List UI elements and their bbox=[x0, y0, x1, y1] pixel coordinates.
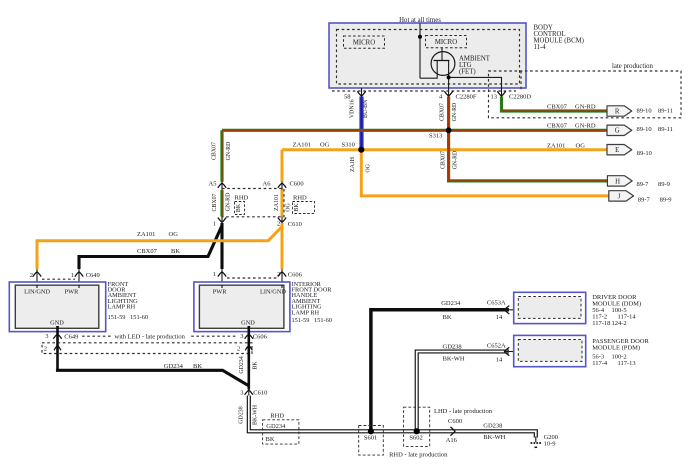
svg-text:89-10: 89-10 bbox=[637, 126, 652, 133]
svg-text:GN-RD: GN-RD bbox=[225, 192, 231, 211]
svg-text:BK: BK bbox=[253, 361, 259, 370]
svg-text:S601: S601 bbox=[364, 435, 377, 442]
svg-text:C606: C606 bbox=[253, 333, 268, 340]
svg-text:BK: BK bbox=[294, 203, 300, 212]
stub through C610 pin 1 bbox=[221, 217, 223, 225]
wire CBX07 GN-RD: G-row corner down to A5 bbox=[220, 130, 223, 182]
connector C606 dashed line bbox=[227, 277, 277, 279]
wire GD234 BK: handle lamp GND down to C610 pin 3 bbox=[248, 326, 251, 390]
svg-text:89-7: 89-7 bbox=[637, 181, 650, 188]
dashed box around splice S602 bbox=[404, 407, 430, 446]
svg-text:LAMP RH: LAMP RH bbox=[292, 309, 320, 316]
svg-text:GD238: GD238 bbox=[483, 422, 502, 429]
svg-text:151-59 151-60: 151-59 151-60 bbox=[292, 317, 332, 324]
wire ZA101 OG: E-row corner down to A6 bbox=[281, 150, 284, 182]
svg-text:PWR: PWR bbox=[65, 288, 79, 295]
svg-text:2: 2 bbox=[237, 345, 240, 352]
stub into DDM bbox=[505, 309, 514, 311]
svg-text:C2280D: C2280D bbox=[509, 94, 531, 101]
stub through C610 pin 3 bbox=[248, 386, 250, 396]
svg-text:H: H bbox=[615, 178, 620, 185]
stub through A5 bbox=[221, 182, 223, 191]
svg-text:GD234: GD234 bbox=[239, 356, 245, 373]
wire GD234 BK: front lamp ground run to C610 pin 3 bbox=[58, 369, 249, 386]
DDM inner dashed box bbox=[518, 297, 581, 319]
svg-text:89-10: 89-10 bbox=[637, 150, 652, 157]
svg-text:C653A: C653A bbox=[487, 299, 506, 306]
pin stub inside front lamp box (LIN/GND) bbox=[36, 285, 38, 289]
svg-text:CBX07: CBX07 bbox=[547, 103, 568, 110]
svg-text:117-18: 117-18 bbox=[592, 320, 610, 327]
connector arrow A5 bbox=[218, 183, 226, 188]
splice S601 bbox=[368, 428, 374, 434]
svg-text:GN-RD: GN-RD bbox=[453, 150, 459, 169]
svg-text:LHD - late production: LHD - late production bbox=[434, 408, 493, 415]
connector arrow at BCM pin 13 C2280D bbox=[497, 91, 505, 96]
svg-text:BU-BN: BU-BN bbox=[363, 99, 369, 118]
wire ZA101 OG segment A6 to C610 pin 2 bbox=[281, 190, 284, 217]
wire VDN16 BU-BN: BCM pin 58 to splice S310 bbox=[359, 97, 363, 150]
connector arrow C649 pin 1 bbox=[75, 272, 83, 277]
connector arrow C649 pin 3 bbox=[53, 334, 61, 339]
module: DRIVER DOOR MODULE (DDM) outer blue box bbox=[514, 292, 586, 323]
stub through C649 pin 1 bbox=[78, 269, 80, 288]
svg-text:GD234: GD234 bbox=[164, 363, 184, 370]
svg-text:C610: C610 bbox=[253, 389, 267, 396]
svg-text:GD238: GD238 bbox=[443, 344, 462, 351]
svg-text:C600: C600 bbox=[290, 181, 304, 188]
wire CBX07 BK: C610 pin 1 straight down to C606 pin 1 bbox=[220, 223, 223, 269]
svg-text:RHD: RHD bbox=[270, 413, 284, 420]
svg-text:BK: BK bbox=[443, 314, 452, 321]
svg-text:GD238: GD238 bbox=[239, 406, 245, 423]
module: PASSENGER DOOR MODULE (PDM) outer blue box bbox=[514, 335, 586, 366]
handle lamp inner box bbox=[199, 285, 284, 328]
svg-text:GN-RD: GN-RD bbox=[575, 103, 596, 110]
stub into PDM bbox=[505, 351, 514, 353]
svg-text:OG: OG bbox=[286, 203, 292, 212]
wire GD234 BK: front lamp GND down bbox=[56, 326, 59, 370]
svg-text:CBX07: CBX07 bbox=[441, 151, 447, 169]
svg-text:3: 3 bbox=[240, 389, 243, 396]
splice S313 bbox=[446, 127, 452, 133]
wire ZA101 OG: branch to front door lamp LIN/GND bbox=[37, 227, 282, 270]
svg-text:C649: C649 bbox=[86, 272, 100, 279]
svg-text:117-13: 117-13 bbox=[618, 360, 636, 367]
svg-text:S310: S310 bbox=[342, 141, 355, 148]
svg-text:BK-WH: BK-WH bbox=[443, 356, 465, 363]
lamp module: INTERIOR FRONT DOOR HANDLE AMBIENT LIGHTING LAMP RH outer blue box bbox=[194, 282, 290, 332]
svg-text:MODULE (PDM): MODULE (PDM) bbox=[592, 344, 640, 351]
svg-text:ZA101: ZA101 bbox=[274, 194, 280, 211]
svg-text:3: 3 bbox=[45, 333, 48, 340]
connector arrow A6 C600 bbox=[278, 183, 286, 188]
svg-text:C649: C649 bbox=[64, 333, 78, 340]
dashed pin-3 tie line with LED note bbox=[82, 335, 236, 337]
svg-text:PWR: PWR bbox=[213, 288, 227, 295]
stub through C606 pin 2 bbox=[281, 269, 283, 288]
svg-text:with LED - late production: with LED - late production bbox=[115, 334, 186, 341]
splice S602 bbox=[414, 428, 420, 434]
pin stub inside front lamp box (PWR) bbox=[78, 285, 80, 289]
pin stub inside handle lamp box (PWR) bbox=[221, 285, 223, 289]
svg-text:58: 58 bbox=[344, 93, 351, 100]
pin stub inside handle lamp box (LIN/GND) bbox=[281, 285, 283, 289]
svg-text:S602: S602 bbox=[409, 435, 422, 442]
svg-text:MICRO: MICRO bbox=[353, 40, 375, 47]
svg-text:1: 1 bbox=[213, 220, 216, 227]
connector line C2280 under BCM (dashed) bbox=[332, 90, 516, 92]
RHD variant dashed region between A5/A6 and C610 bbox=[222, 189, 284, 217]
svg-text:BK: BK bbox=[193, 363, 202, 370]
svg-text:BK: BK bbox=[236, 203, 242, 212]
svg-text:R: R bbox=[615, 108, 620, 115]
stub through C649 pin 2 bbox=[36, 269, 38, 288]
front lamp inner box bbox=[15, 285, 99, 328]
wire CBX07 GN-RD: splice S313 down to H row bbox=[449, 130, 608, 181]
connector arrow C652A pin 14 bbox=[505, 347, 510, 355]
svg-text:89-9: 89-9 bbox=[660, 196, 672, 203]
wire CBX07 GN-RD: corner to connector G bbox=[222, 129, 607, 132]
svg-text:C600: C600 bbox=[448, 418, 462, 425]
connector arrow at BCM pin 58 bbox=[357, 91, 365, 96]
wire CBX07 GN-RD: BCM pin 13 to connector R bbox=[502, 97, 608, 112]
svg-text:2: 2 bbox=[44, 345, 47, 352]
splice S310 bbox=[358, 147, 364, 153]
svg-text:GN-RD: GN-RD bbox=[226, 141, 232, 160]
svg-text:C2280F: C2280F bbox=[456, 93, 477, 100]
connector arrow C610 pin 3 bbox=[245, 390, 253, 395]
svg-text:89-10: 89-10 bbox=[637, 108, 652, 115]
svg-text:LAMP RH: LAMP RH bbox=[108, 304, 136, 311]
svg-text:3: 3 bbox=[240, 333, 243, 340]
off-page connector R bbox=[607, 106, 632, 116]
svg-text:S313: S313 bbox=[429, 133, 442, 140]
late production dashed region (top right) bbox=[489, 71, 682, 118]
svg-text:89-11: 89-11 bbox=[658, 108, 673, 115]
micro block U1a MICRO bbox=[344, 36, 385, 48]
late production alternate pin-2 dashed region bbox=[42, 343, 252, 354]
svg-text:89-9: 89-9 bbox=[658, 181, 670, 188]
micro block U1b MICRO bbox=[426, 36, 467, 48]
dashed separator between C2280F and C2280D bbox=[520, 71, 522, 91]
svg-text:1: 1 bbox=[71, 272, 74, 279]
svg-text:CBX07: CBX07 bbox=[211, 142, 217, 160]
wire GD238 BK-WH: C610 pin 3 to ground G200 bbox=[249, 396, 536, 438]
svg-text:89-11: 89-11 bbox=[658, 126, 673, 133]
pin 13 stub bbox=[501, 88, 503, 97]
off-page connector G bbox=[607, 125, 632, 135]
svg-text:GD234: GD234 bbox=[266, 423, 286, 430]
svg-text:OG: OG bbox=[576, 142, 586, 149]
wire GD234 BK: splice S601 up and right to DDM bbox=[371, 310, 509, 432]
junction: FET output node bbox=[447, 75, 451, 79]
svg-text:BK: BK bbox=[266, 436, 275, 443]
svg-text:14: 14 bbox=[496, 314, 503, 321]
dashed box around splice S601 bbox=[359, 426, 384, 456]
svg-text:A16: A16 bbox=[446, 437, 458, 444]
svg-text:10-9: 10-9 bbox=[544, 441, 556, 448]
svg-text:RHD: RHD bbox=[293, 194, 307, 201]
off-page connector H bbox=[607, 176, 632, 186]
wire: battery feed down from Hot at all times bbox=[419, 24, 421, 79]
connector arrow C606 pin 3 bbox=[245, 334, 253, 339]
connector arrow C606 pin 2 bbox=[278, 272, 286, 277]
stub through C606 pin 1 bbox=[221, 269, 223, 288]
svg-text:RHD - late production: RHD - late production bbox=[389, 451, 448, 458]
svg-text:ZA101: ZA101 bbox=[137, 231, 155, 238]
svg-text:late production: late production bbox=[612, 63, 654, 70]
svg-text:GD234: GD234 bbox=[441, 300, 461, 307]
svg-text:ZA101: ZA101 bbox=[293, 141, 311, 148]
PDM inner dashed box bbox=[518, 340, 582, 362]
svg-text:OG: OG bbox=[320, 141, 330, 148]
svg-text:C606: C606 bbox=[288, 272, 303, 279]
svg-text:14: 14 bbox=[496, 357, 503, 364]
stub through A6 bbox=[281, 182, 283, 191]
svg-text:BK-WH: BK-WH bbox=[483, 434, 505, 441]
connector C649 dashed line bbox=[42, 278, 75, 280]
alt connector arrow pin 2 (right) bbox=[245, 346, 252, 351]
svg-text:BK-WH: BK-WH bbox=[252, 404, 258, 425]
wire: MICRO gate lead bbox=[441, 48, 443, 61]
svg-text:2: 2 bbox=[277, 220, 280, 227]
svg-text:124-2: 124-2 bbox=[612, 320, 627, 327]
wire ZA1H OG: splice S310 down to J row bbox=[361, 150, 609, 196]
svg-text:151-59 151-60: 151-59 151-60 bbox=[108, 314, 148, 321]
svg-text:OG: OG bbox=[169, 231, 179, 238]
BCM inner dashed border bbox=[337, 30, 520, 85]
lamp module: FRONT DOOR AMBIENT LIGHTING LAMP RH outer blue box bbox=[9, 282, 105, 332]
svg-text:A6: A6 bbox=[263, 180, 272, 187]
connector arrow C600 pin A16 bbox=[450, 427, 455, 436]
wire CBX07 GN-RD segment A5 to C610 pin 1 bbox=[220, 190, 223, 217]
connector arrow at BCM pin 4 C2280F bbox=[444, 91, 452, 96]
svg-text:LIN/GND: LIN/GND bbox=[24, 288, 50, 295]
svg-text:ZA101: ZA101 bbox=[547, 142, 565, 149]
svg-text:CBX07: CBX07 bbox=[212, 193, 218, 211]
svg-text:GND: GND bbox=[241, 320, 255, 327]
svg-text:G: G bbox=[615, 128, 620, 135]
ground G200 symbol bbox=[535, 437, 537, 443]
svg-text:CBX07: CBX07 bbox=[137, 248, 158, 255]
svg-text:89-7: 89-7 bbox=[638, 196, 651, 203]
svg-text:OG: OG bbox=[365, 163, 371, 172]
svg-text:A5: A5 bbox=[209, 180, 217, 187]
transistor Q1 gate bar bbox=[434, 60, 450, 62]
off-page connector J bbox=[609, 191, 634, 201]
svg-text:(FET): (FET) bbox=[459, 68, 476, 75]
dashed alt-wire box BK (left) bbox=[235, 202, 245, 215]
svg-text:C652A: C652A bbox=[487, 343, 506, 350]
stub through C610 pin 2 bbox=[281, 217, 283, 225]
svg-text:CBX07: CBX07 bbox=[440, 103, 446, 121]
dashed alt-wire box RHD GD234 BK bbox=[263, 420, 299, 444]
connector arrow C653A pin 14 bbox=[505, 306, 510, 314]
svg-text:Hot at all times: Hot at all times bbox=[399, 17, 441, 24]
svg-text:MICRO: MICRO bbox=[435, 39, 457, 46]
alt connector arrow pin 2 (left) bbox=[54, 346, 61, 351]
connector arrow C610 pin 2 bbox=[278, 218, 286, 223]
svg-text:117-4: 117-4 bbox=[592, 360, 608, 367]
connector arrow C606 pin 1 bbox=[218, 272, 226, 277]
off-page connector E bbox=[607, 145, 632, 155]
wire GD238 BK-WH: splice S602 up and right to PDM bbox=[417, 352, 509, 432]
svg-text:ZA1H: ZA1H bbox=[350, 156, 356, 172]
svg-text:RHD: RHD bbox=[235, 194, 249, 201]
svg-text:GN-RD: GN-RD bbox=[452, 102, 458, 121]
transistor Q1 AMBIENT LTG (FET) circle bbox=[431, 52, 455, 76]
svg-text:GN-RD: GN-RD bbox=[575, 123, 596, 130]
svg-text:2: 2 bbox=[30, 272, 33, 279]
svg-text:1: 1 bbox=[213, 271, 216, 278]
connector arrow C649 pin 2 bbox=[33, 272, 41, 277]
svg-text:LIN/GND: LIN/GND bbox=[260, 288, 286, 295]
wire: battery feed to FET source leg bbox=[420, 60, 437, 78]
svg-text:GND: GND bbox=[50, 320, 64, 327]
wire CBX07 BK: branch to front door lamp PWR bbox=[79, 226, 222, 270]
svg-text:13: 13 bbox=[491, 94, 498, 101]
wire: FET output branch to pin 13 bbox=[449, 77, 502, 88]
svg-text:J: J bbox=[618, 193, 621, 200]
svg-text:C610: C610 bbox=[288, 221, 302, 228]
pin 58 stub bbox=[361, 88, 363, 97]
svg-text:E: E bbox=[615, 147, 619, 154]
wire ZA101 OG: C610 pin 2 straight down to C606 pin 2 bbox=[281, 223, 284, 269]
connector arrow C610 pin 1 bbox=[218, 218, 226, 223]
dashed alt-wire box BK (right) bbox=[293, 202, 315, 214]
wire ZA101 OG: corner C600 to connector E bbox=[282, 148, 607, 151]
svg-text:BK: BK bbox=[171, 248, 180, 255]
wire CBX07 GN-RD: BCM pin 4 to splice S313 bbox=[447, 97, 450, 131]
svg-text:11-4: 11-4 bbox=[534, 44, 547, 51]
svg-text:CBX07: CBX07 bbox=[547, 123, 568, 130]
module U1: Body Control Module (BCM) outer box bbox=[329, 23, 526, 88]
junction on battery feed bbox=[418, 35, 422, 39]
transistor Q1 drain leg to pin 4 bbox=[448, 61, 450, 89]
svg-text:VDN16: VDN16 bbox=[350, 99, 356, 118]
pin 4 stub bbox=[448, 88, 450, 97]
